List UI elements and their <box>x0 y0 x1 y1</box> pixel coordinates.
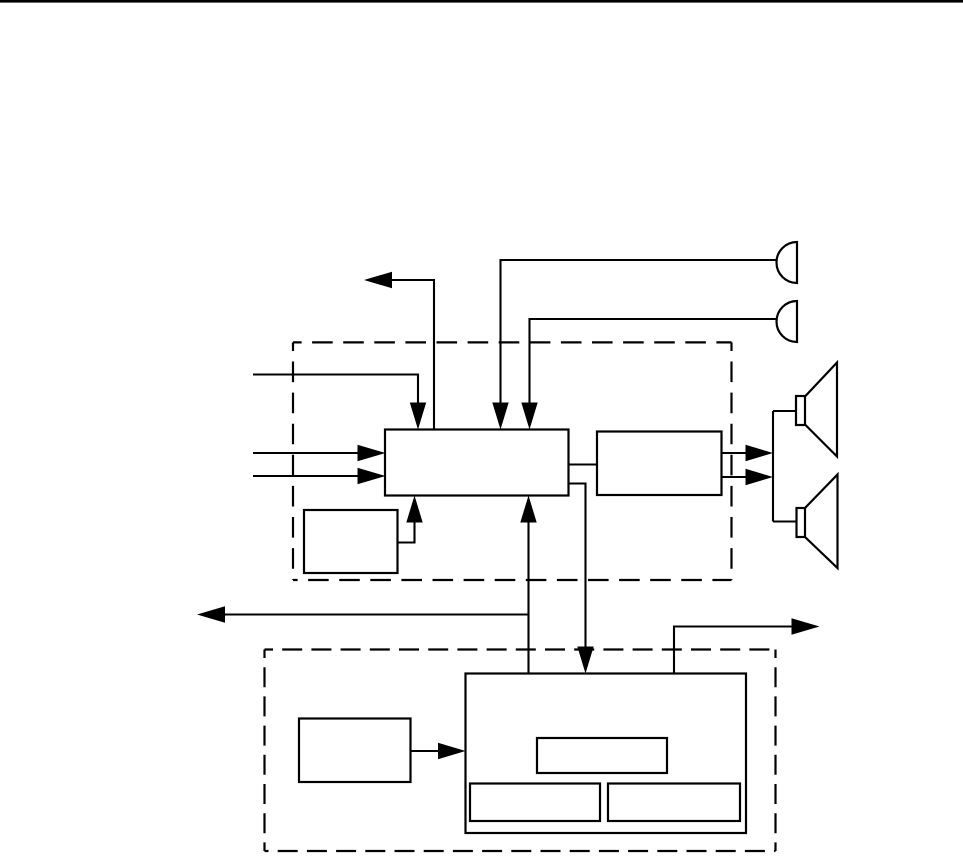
block B6: CPU <box>537 738 667 773</box>
block B2: amplifier <box>597 432 722 496</box>
arrowhead right into B5 (from B4) <box>438 743 466 760</box>
speaker SPK2 driver <box>797 508 806 537</box>
arrowhead down into B1 (from MIC1) <box>492 403 508 430</box>
arrowhead right into B1 (input 2) <box>358 445 386 462</box>
block B3: clock oscillator <box>304 510 398 573</box>
wire: MIC1 to B1 top <box>501 260 778 404</box>
arrowhead left (bottom-left output) <box>197 606 225 623</box>
arrowhead left (top output) <box>364 272 392 289</box>
arrowhead right (B2 output 1) <box>746 445 774 462</box>
arrowhead down into B1 (from MIC2) <box>521 403 537 430</box>
dashed enclosure: controller section <box>265 650 776 852</box>
arrowhead down into B1 (external input) <box>410 403 426 430</box>
block B7: memory 1 <box>470 784 600 822</box>
wire: branch going left from vertical bus <box>225 613 529 615</box>
wire: feed to SPK1 <box>773 410 796 412</box>
microphone MIC1 <box>777 242 798 283</box>
top border bar <box>0 0 963 3</box>
wire: external input 2 to B1 left <box>253 452 358 454</box>
wire: B2 output 2 <box>722 476 747 478</box>
arrowhead right (B2 output 2) <box>746 469 774 486</box>
wire: B1 lower-right output down to B5 <box>569 484 586 648</box>
wire: B1 to B2 <box>569 463 598 465</box>
block B5: controller unit <box>466 674 747 834</box>
wire: B3 to B1 bottom <box>398 522 415 543</box>
wire: B2 output 1 <box>722 452 747 454</box>
wire: B5 top to B1 bottom <box>527 522 529 674</box>
arrowhead right (B5 output) <box>792 618 820 635</box>
arrowhead down into B5 <box>577 647 593 674</box>
speaker SPK1 driver <box>796 396 805 425</box>
block B1: signal processor <box>385 430 569 496</box>
arrowhead right into B1 (input 3) <box>358 468 386 485</box>
wire: B1 top output going up then left <box>392 280 434 430</box>
microphone MIC2 <box>777 301 798 342</box>
wire: external input 3 to B1 left <box>253 475 358 477</box>
wire: speaker bus vertical <box>772 411 774 522</box>
speaker SPK1 horn <box>805 363 837 457</box>
dashed enclosure: audio processing section <box>293 342 732 580</box>
wire: external input to B1 top-left <box>253 375 418 405</box>
wire: feed to SPK2 <box>773 520 797 522</box>
wire: B4 to B5 <box>411 750 439 752</box>
speaker SPK2 horn <box>805 475 838 569</box>
block B4: power supply <box>299 719 411 783</box>
wire: B5 top output going up then right <box>674 627 792 674</box>
arrowhead up into B1 (from B5) <box>520 496 536 523</box>
wire: MIC2 to B1 top <box>530 319 778 404</box>
block B8: memory 2 <box>608 784 740 822</box>
arrowhead up into B1 (from B3) <box>406 496 422 523</box>
